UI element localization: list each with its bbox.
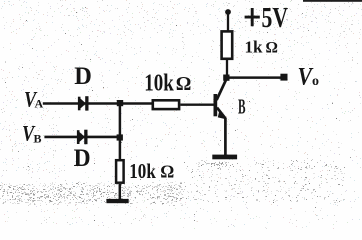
svg-text:B: B [34, 132, 42, 146]
svg-text:B: B [238, 95, 246, 119]
svg-text:1k: 1k [245, 38, 264, 57]
svg-text:Ω: Ω [160, 162, 174, 182]
svg-text:5V: 5V [262, 3, 289, 34]
svg-text:Ω: Ω [266, 39, 278, 56]
svg-text:D: D [74, 63, 92, 90]
svg-text:Ω: Ω [176, 74, 192, 95]
svg-text:A: A [35, 97, 44, 111]
svg-text:D: D [74, 145, 91, 172]
svg-text:o: o [312, 74, 319, 89]
svg-text:10k: 10k [144, 71, 174, 97]
svg-text:10k: 10k [129, 159, 156, 183]
